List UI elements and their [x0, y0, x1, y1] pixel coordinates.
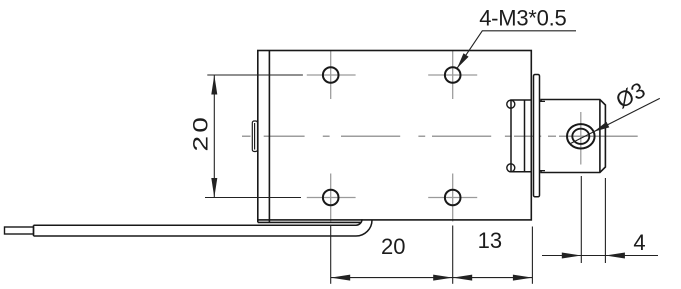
arrow up: [211, 75, 217, 95]
crosshair bottom-right hole: [428, 174, 477, 222]
dim line 20/13: [331, 277, 533, 279]
shaft hole inner: [572, 129, 589, 144]
leader arrow d3: [594, 122, 610, 132]
shaft hole outer: [567, 124, 595, 148]
mounting hole bottom-right: [445, 190, 461, 206]
leader 4-M3*0.5: [457, 31, 576, 68]
dim 4 extension lines: [542, 176, 658, 263]
svg-text:20: 20: [189, 114, 213, 152]
svg-text:4-M3*0.5: 4-M3*0.5: [479, 5, 566, 30]
plunger block: [541, 100, 605, 173]
bottom dims extension lines: [331, 226, 533, 284]
frame left edge lower stub: [257, 220, 259, 223]
mounting hole top-right: [445, 67, 461, 83]
svg-text:4: 4: [633, 230, 645, 255]
dim vertical 20 line: [213, 75, 215, 198]
svg-text:20: 20: [381, 234, 405, 259]
flange stop plate: [534, 75, 540, 197]
arrow 4 left: [562, 253, 582, 259]
coil bump on left edge: [252, 121, 257, 152]
crosshair bottom-left hole: [307, 174, 356, 222]
mounting hole top-left: [323, 67, 339, 83]
leader arrow: [457, 53, 469, 68]
arrow right 20: [433, 275, 453, 281]
mounting hole bottom-left: [323, 190, 339, 206]
arrow left 13: [453, 275, 473, 281]
arrow 4 right: [605, 253, 625, 259]
right plate: [511, 100, 531, 172]
arrow right 13: [513, 275, 533, 281]
wire stripped end: [5, 227, 34, 234]
centerline main axis: [242, 135, 638, 137]
frame body outline: [258, 51, 532, 223]
crosshair shaft hole: [580, 112, 582, 165]
arrow down: [211, 178, 217, 198]
plunger neck step: [540, 101, 546, 170]
svg-text:13: 13: [478, 228, 502, 253]
right plate tab circles: [507, 100, 515, 172]
wire lead insulated: [34, 219, 373, 236]
dim vertical 20 extension lines: [205, 75, 303, 198]
arrow left 20: [331, 275, 351, 281]
frame bottom plate lower edge: [258, 221, 361, 223]
crosshair top-left hole: [307, 51, 356, 99]
crosshair top-right hole: [428, 51, 477, 99]
dim 4 lines: [542, 255, 605, 257]
leader diameter 3: [571, 98, 660, 143]
hole crosshairs (gray): [307, 51, 581, 222]
frame left plate inner edge: [268, 51, 270, 223]
